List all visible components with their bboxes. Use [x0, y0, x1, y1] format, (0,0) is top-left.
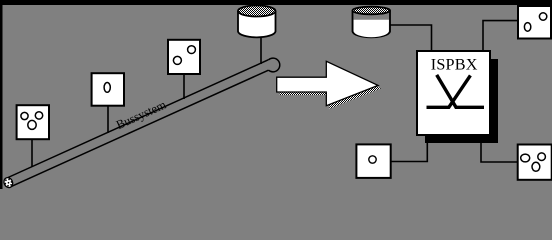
terminal T2 — [92, 73, 124, 106]
bus end cap ellipse — [2, 176, 14, 189]
bus end cap dots — [3, 177, 13, 188]
terminal T1 — [17, 105, 49, 139]
wire disk D2 to ISPBX — [390, 25, 432, 51]
wire terminal T6 to ISPBX — [481, 143, 518, 162]
wire terminal T1 to bus — [31, 139, 33, 167]
terminal T5 — [356, 144, 390, 178]
terminal T6 — [518, 145, 552, 180]
bus tube (Bussystem) — [0, 51, 273, 189]
top border bar — [0, 0, 552, 5]
ISPBX shadow — [425, 59, 498, 143]
disk cylinder D2 — [352, 7, 390, 38]
terminal T4 — [518, 6, 551, 39]
bus upper edge — [6, 60, 268, 179]
wire terminal T5 to ISPBX — [391, 143, 428, 162]
svg-text:ISPBX: ISPBX — [431, 56, 478, 74]
ISPBX box U1 — [417, 51, 490, 135]
wire terminal T3 to bus — [183, 74, 185, 99]
wire disk D1 to bus — [260, 38, 262, 64]
disk cylinder D1 — [238, 6, 276, 38]
left border bar — [0, 0, 3, 189]
big arrow shadow — [280, 64, 381, 108]
big arrow — [277, 61, 378, 105]
wire terminal T4 to ISPBX — [483, 21, 518, 51]
bus far end cap — [269, 58, 280, 72]
bus lower edge — [10, 70, 268, 187]
terminal T3 — [168, 40, 200, 74]
wire terminal T2 to bus — [107, 106, 109, 133]
ISPBX switch symbol — [427, 75, 485, 107]
